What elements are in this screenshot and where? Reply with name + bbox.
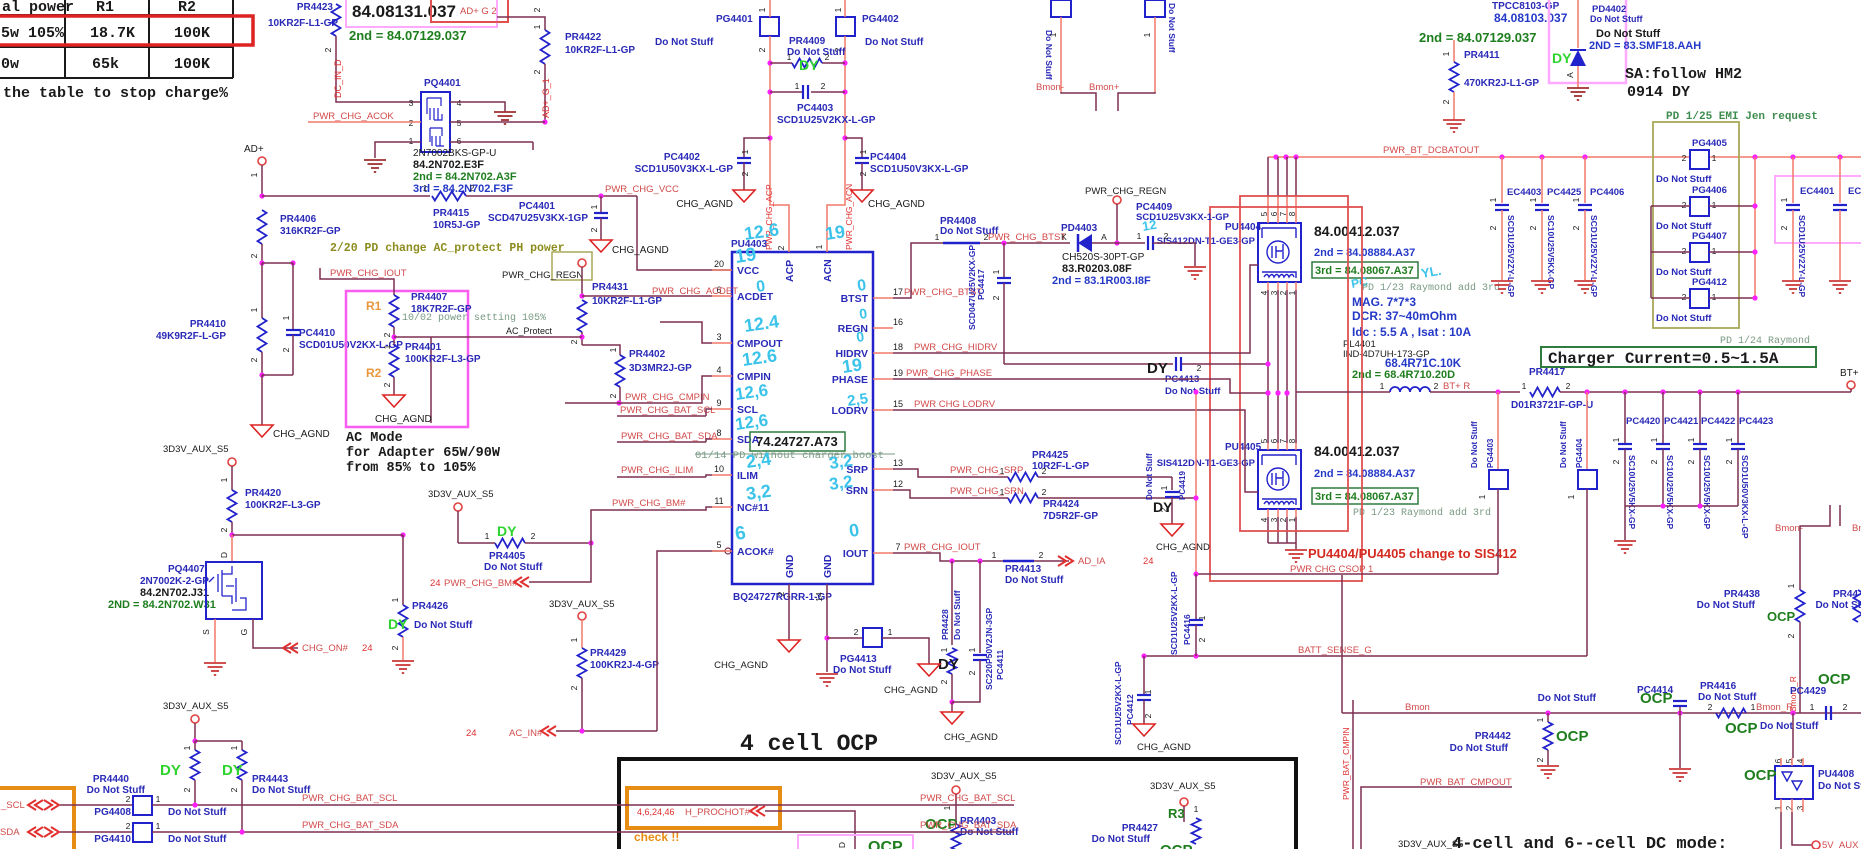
jumper PG4413 [827, 637, 863, 639]
svg-text:15: 15 [893, 399, 903, 409]
svg-text:470KR2J-L1-GP: 470KR2J-L1-GP [1464, 78, 1539, 89]
wire PWR_BT_DCBATOUT [1268, 156, 1861, 158]
capacitor PC4403 [767, 89, 772, 94]
svg-text:2: 2 [532, 7, 542, 12]
svg-text:1: 1 [1441, 51, 1451, 56]
svg-text:1: 1 [1779, 197, 1789, 202]
svg-text:84.2N702.E3F: 84.2N702.E3F [413, 159, 484, 171]
svg-text:PC4423: PC4423 [1739, 416, 1773, 427]
svg-text:2: 2 [1611, 459, 1621, 464]
svg-text:49K9R2F-L-GP: 49K9R2F-L-GP [156, 331, 226, 342]
svg-text:12: 12 [893, 479, 903, 489]
svg-text:AC_IN#: AC_IN# [509, 728, 543, 739]
svg-text:2: 2 [776, 591, 786, 596]
svg-text:Do Not Stuff: Do Not Stuff [1538, 693, 1597, 704]
svg-text:_SCL: _SCL [0, 800, 25, 811]
wire bundle PU4404 to PU4405 [1267, 290, 1269, 443]
svg-text:5V_AUX_: 5V_AUX_ [1822, 840, 1861, 849]
svg-text:ACDET: ACDET [737, 291, 774, 303]
jumper box Do Not Stuff Bmon+ [1145, 0, 1165, 17]
svg-text:1: 1 [991, 269, 1001, 274]
svg-text:2: 2 [1682, 200, 1687, 210]
svg-text:5: 5 [457, 118, 462, 128]
svg-text:2: 2 [1197, 637, 1207, 642]
svg-text:2: 2 [1039, 550, 1044, 560]
wire 3d3v row [229, 532, 234, 537]
svg-text:1: 1 [249, 307, 259, 312]
resistor PR4426 pulldown [402, 535, 404, 605]
wire right bus PG columns [1754, 157, 1756, 298]
svg-text:1: 1 [787, 52, 792, 62]
svg-text:316KR2F-GP: 316KR2F-GP [280, 226, 341, 237]
svg-text:Do Not Stuff: Do Not Stuff [414, 620, 473, 631]
svg-text:2N7002BKS-GP-U: 2N7002BKS-GP-U [413, 148, 496, 159]
svg-text:1: 1 [967, 647, 977, 652]
svg-text:11: 11 [714, 496, 723, 506]
ground [1782, 280, 1804, 282]
svg-text:YL.: YL. [1420, 263, 1443, 281]
wire PWR_CHG_VCC [466, 195, 637, 197]
svg-text:2: 2 [1441, 99, 1451, 104]
svg-text:Bmon_R: Bmon_R [1756, 702, 1793, 713]
svg-text:PR4424: PR4424 [1043, 499, 1080, 510]
box 74.24727.A73 [750, 432, 845, 451]
transistor PU4408 [1775, 766, 1813, 799]
svg-text:2: 2 [249, 253, 259, 258]
ground CHG_AGND [851, 190, 873, 202]
svg-text:Do Not Stuff: Do Not Stuff [1697, 600, 1756, 611]
svg-text:PWR_CHG_BAT_SDA: PWR_CHG_BAT_SDA [920, 820, 1017, 831]
svg-text:2: 2 [1566, 381, 1571, 391]
svg-text:0: 0 [858, 305, 868, 322]
svg-text:SCD1U50V3KX-L-GP: SCD1U50V3KX-L-GP [1740, 455, 1750, 539]
svg-text:2: 2 [382, 382, 392, 387]
svg-text:100KR2F-L3-GP: 100KR2F-L3-GP [405, 354, 481, 365]
svg-text:PR4416: PR4416 [1700, 681, 1737, 692]
svg-text:1: 1 [156, 794, 161, 804]
svg-text:Do Not Stuff: Do Not Stuff [252, 785, 311, 796]
pin 15 LODRV [873, 409, 893, 411]
svg-text:G: G [239, 629, 249, 636]
svg-text:1: 1 [1143, 689, 1153, 694]
svg-text:PR4420: PR4420 [245, 488, 282, 499]
ground [494, 111, 516, 113]
svg-text:PU4408: PU4408 [1818, 769, 1855, 780]
capacitor PC4417 bootstrap [1003, 243, 1005, 278]
pin 11 NC#11 [712, 506, 732, 508]
svg-text:2nd = 84.08884.A37: 2nd = 84.08884.A37 [1314, 247, 1415, 259]
svg-text:1: 1 [608, 347, 618, 352]
svg-text:PR4407: PR4407 [411, 292, 448, 303]
svg-text:AD+_G_1: AD+_G_1 [541, 78, 551, 118]
svg-text:2: 2 [182, 787, 192, 792]
svg-text:1: 1 [1810, 702, 1815, 712]
wire PQ4401 pin1 to ground [375, 142, 421, 158]
svg-text:SCD1U25V2KX-L-GP: SCD1U25V2KX-L-GP [777, 115, 876, 126]
svg-text:2: 2 [740, 171, 750, 176]
svg-text:19: 19 [841, 354, 864, 377]
svg-text:12: 12 [1141, 217, 1158, 234]
svg-text:8: 8 [1288, 438, 1297, 443]
svg-text:PQ4407: PQ4407 [168, 564, 205, 575]
svg-text:AD+ G 2: AD+ G 2 [460, 6, 497, 17]
svg-text:PWR_CHG_IOUT: PWR_CHG_IOUT [330, 268, 407, 279]
svg-text:18: 18 [893, 342, 903, 352]
svg-text:NC#11: NC#11 [737, 502, 769, 514]
svg-text:3,2: 3,2 [828, 472, 854, 494]
svg-text:1: 1 [1048, 32, 1058, 37]
svg-text:PG4412: PG4412 [1692, 277, 1727, 288]
svg-text:PWR_CHG_BAT_SCL: PWR_CHG_BAT_SCL [302, 793, 397, 804]
svg-text:R2: R2 [366, 366, 382, 380]
svg-text:1: 1 [485, 531, 490, 541]
wire bundle DCBATOUT to PU4404 [1267, 157, 1269, 197]
ground [1574, 280, 1596, 282]
svg-text:PWR_CHG_SRN: PWR_CHG_SRN [950, 486, 1024, 497]
svg-text:1: 1 [1137, 231, 1142, 241]
svg-text:1: 1 [1566, 494, 1576, 499]
svg-text:10KR2F-L1-GP: 10KR2F-L1-GP [565, 45, 635, 56]
svg-text:2: 2 [939, 679, 949, 684]
svg-text:PC4429: PC4429 [1790, 686, 1827, 697]
svg-text:19: 19 [893, 368, 903, 378]
svg-text:2: 2 [382, 332, 392, 337]
svg-text:Do Not Stuff: Do Not Stuff [1470, 421, 1479, 468]
svg-text:7: 7 [895, 542, 900, 552]
svg-text:PR4423: PR4423 [297, 2, 334, 13]
svg-text:2: 2 [1686, 459, 1696, 464]
wire join [259, 372, 264, 377]
ground [364, 159, 386, 161]
svg-text:PR4415: PR4415 [433, 208, 470, 219]
svg-text:PG4410: PG4410 [94, 834, 131, 845]
svg-text:1: 1 [1380, 381, 1385, 391]
svg-text:CHG_ON#: CHG_ON# [302, 643, 349, 654]
orange box bottom left [0, 788, 74, 849]
wire BT+_R row [1296, 391, 1390, 393]
svg-text:PG4407: PG4407 [1692, 231, 1727, 242]
svg-text:DY: DY [222, 762, 243, 779]
svg-text:for Adapter 65W/90W: for Adapter 65W/90W [346, 446, 501, 461]
ground CHG_AGND [941, 712, 963, 724]
ground [816, 673, 838, 675]
svg-text:SCD47U25V3KX-1GP: SCD47U25V3KX-1GP [488, 213, 588, 224]
svg-text:PWR_CHG_PHASE: PWR_CHG_PHASE [906, 368, 992, 379]
svg-text:10/02 power setting 105%: 10/02 power setting 105% [402, 312, 546, 324]
svg-text:H_PROCHOT#: H_PROCHOT# [685, 807, 751, 818]
svg-text:from 85% to 105%: from 85% to 105% [346, 461, 477, 476]
svg-text:6: 6 [457, 136, 462, 146]
svg-text:Do Not Stu: Do Not Stu [1818, 781, 1861, 792]
net PWR_CHG_SRN [893, 490, 1008, 498]
ground [1567, 87, 1589, 89]
svg-text:2: 2 [757, 47, 767, 52]
svg-text:Do Not Stuff: Do Not Stuff [1092, 834, 1151, 845]
svg-text:SC10U25V5KX-GP: SC10U25V5KX-GP [1546, 215, 1556, 290]
svg-text:DY: DY [1552, 50, 1572, 66]
svg-text:4,6,24,46: 4,6,24,46 [637, 807, 675, 817]
wire ACN column [827, 36, 845, 252]
black box 4 cell OCP region [619, 759, 1296, 849]
svg-text:PD 1/24 Raymond: PD 1/24 Raymond [1720, 335, 1810, 347]
svg-text:PC4420: PC4420 [1626, 416, 1660, 427]
svg-text:2: 2 [608, 393, 618, 398]
node 5V_AUX [1812, 841, 1820, 849]
svg-text:PG4401: PG4401 [716, 14, 753, 25]
svg-text:SCD1U25V2KX-L-GP: SCD1U25V2KX-L-GP [1113, 661, 1123, 745]
svg-text:5: 5 [1260, 211, 1269, 216]
svg-text:2: 2 [1159, 507, 1169, 512]
pin 20 VCC [712, 269, 732, 271]
svg-text:PR4402: PR4402 [629, 349, 666, 360]
ground [1614, 540, 1636, 542]
svg-text:PG4406: PG4406 [1692, 185, 1727, 196]
svg-text:1: 1 [888, 627, 893, 637]
pin 7 IOUT [873, 552, 893, 554]
svg-text:8: 8 [1288, 211, 1297, 216]
pink box PD4402 [1549, 0, 1626, 83]
svg-text:PU4404/PU4405 change to SIS412: PU4404/PU4405 change to SIS412 [1308, 546, 1517, 561]
svg-text:R1: R1 [366, 299, 382, 313]
svg-text:1: 1 [409, 136, 414, 146]
wire PQ4407 S to ground [214, 619, 216, 662]
svg-text:PG4404: PG4404 [1575, 438, 1584, 468]
svg-text:DY: DY [799, 57, 819, 73]
svg-text:Do Not Stuff: Do Not Stuff [865, 37, 924, 48]
svg-text:2: 2 [126, 821, 131, 831]
svg-text:12.4: 12.4 [743, 311, 780, 336]
svg-text:SCD1U25V2KX-L-GP: SCD1U25V2KX-L-GP [1169, 571, 1179, 655]
svg-text:5w 105%: 5w 105% [1, 25, 65, 42]
svg-text:12,6: 12,6 [734, 411, 769, 434]
wire REGN to ACDET [581, 267, 583, 296]
svg-text:EC4403: EC4403 [1507, 187, 1541, 198]
svg-text:1: 1 [281, 315, 291, 320]
svg-text:6: 6 [734, 523, 747, 545]
wire PQ4401 pin5 to AD+_G_1 [450, 121, 545, 123]
ground [204, 662, 226, 664]
svg-text:OCP: OCP [1556, 728, 1589, 745]
svg-text:PR4401: PR4401 [405, 342, 442, 353]
svg-text:PWR_CHG_IOUT: PWR_CHG_IOUT [904, 542, 981, 553]
svg-text:SA:follow HM2: SA:follow HM2 [1625, 66, 1742, 83]
svg-text:the table to stop charge%: the table to stop charge% [3, 85, 229, 102]
svg-text:PC4411: PC4411 [995, 649, 1005, 680]
svg-text:1: 1 [569, 637, 579, 642]
svg-text:1: 1 [1522, 381, 1527, 391]
svg-text:K: K [1061, 232, 1067, 242]
svg-text:1: 1 [1751, 702, 1756, 712]
wire GND pin14 down [826, 584, 828, 672]
svg-text:2: 2 [323, 47, 333, 52]
svg-text:2nd = 84.07129.037: 2nd = 84.07129.037 [1419, 30, 1536, 45]
svg-text:PWR_CHG_BAT_SCL: PWR_CHG_BAT_SCL [920, 793, 1015, 804]
svg-text:2: 2 [531, 531, 536, 541]
pin 17 BTST [873, 297, 893, 299]
svg-text:D01R3721F-GP-U: D01R3721F-GP-U [1511, 400, 1593, 411]
svg-text:Do Not Stuff: Do Not Stuff [833, 665, 892, 676]
svg-text:Do Not Stuff: Do Not Stuff [484, 562, 543, 573]
wire PWR_CHG_BAT_SDA [152, 831, 1014, 833]
net H_PROCHOT# wire [750, 806, 765, 816]
svg-text:A: A [1101, 232, 1107, 242]
svg-text:PR4427: PR4427 [1122, 823, 1159, 834]
wire GND pin2 to ground [788, 584, 790, 640]
wire PR4406 down [261, 244, 263, 263]
wire PWR_CHG_BAT_SCL [152, 804, 1014, 806]
svg-text:PR4411: PR4411 [1464, 50, 1500, 61]
capacitor PC4411 [979, 561, 981, 653]
svg-text:18.7K: 18.7K [90, 25, 135, 42]
ground CHG_AGND [383, 395, 405, 407]
svg-text:DY: DY [160, 762, 181, 779]
svg-text:PU4405: PU4405 [1225, 442, 1262, 453]
svg-text:1: 1 [992, 550, 997, 560]
svg-text:PWR_CHG_BTST: PWR_CHG_BTST [988, 232, 1066, 243]
svg-text:19: 19 [734, 244, 758, 268]
svg-text:24: 24 [1143, 556, 1154, 567]
svg-text:PG4413: PG4413 [840, 654, 877, 665]
svg-text:R3: R3 [1168, 806, 1185, 821]
svg-text:2nd = 84.2N702.A3F: 2nd = 84.2N702.A3F [413, 171, 517, 183]
svg-text:Do Not Stuff: Do Not Stuff [1165, 386, 1221, 397]
svg-text:1: 1 [1724, 437, 1734, 442]
pin 16 REGN [873, 327, 893, 329]
wire PU4408 connections [1792, 713, 1794, 758]
svg-text:4: 4 [457, 98, 462, 108]
svg-text:PR4443: PR4443 [252, 774, 289, 785]
red box fragment AD+_G_2 [431, 0, 508, 22]
svg-text:AC Mode: AC Mode [346, 431, 403, 446]
svg-text:1: 1 [156, 821, 161, 831]
net AD_IA arrow [1058, 556, 1073, 566]
svg-text:2: 2 [821, 81, 826, 91]
svg-text:OCP: OCP [1160, 842, 1193, 849]
svg-text:4-cell and 6--cell DC mode:: 4-cell and 6--cell DC mode: [1452, 835, 1727, 849]
pin 10 ILIM [712, 474, 732, 476]
svg-text:Bm: Bm [1852, 523, 1861, 534]
svg-text:1: 1 [942, 805, 952, 810]
svg-text:2: 2 [249, 357, 259, 362]
svg-text:DCR: 37~40mOhm: DCR: 37~40mOhm [1352, 309, 1457, 323]
svg-text:SDA: SDA [0, 827, 20, 838]
svg-text:10R5J-GP: 10R5J-GP [433, 220, 481, 231]
wire AD+_G_1 down to ACOK net [544, 64, 546, 122]
svg-text:Do Not Stuff: Do Not Stuff [655, 37, 714, 48]
svg-text:D: D [219, 552, 229, 558]
svg-text:GND: GND [822, 554, 834, 578]
svg-text:2: 2 [409, 118, 414, 128]
svg-text:3rd = 84.08067.A37: 3rd = 84.08067.A37 [1315, 491, 1414, 503]
wire PQ4407 G to CHG_ON# [253, 619, 298, 648]
svg-text:PC4401: PC4401 [519, 201, 556, 212]
pin 19 PHASE [873, 378, 893, 380]
svg-text:GND: GND [784, 554, 796, 578]
svg-text:1: 1 [1712, 153, 1717, 163]
svg-text:1: 1 [182, 745, 192, 750]
svg-text:PWR_BAT_CMPIN: PWR_BAT_CMPIN [1341, 727, 1351, 800]
capacitor PC4412 [1143, 656, 1145, 695]
red highlight box on 65w row [0, 16, 253, 45]
svg-text:1: 1 [1712, 200, 1717, 210]
red box around PU4404/PU4405 [1240, 196, 1348, 531]
svg-text:4: 4 [716, 365, 721, 375]
svg-text:2ND = 83.SMF18.AAH: 2ND = 83.SMF18.AAH [1589, 40, 1701, 52]
svg-text:2nd = 84.07129.037: 2nd = 84.07129.037 [349, 28, 466, 43]
svg-text:PR4428: PR4428 [940, 609, 950, 640]
svg-text:SCD047U25V2KX-GP: SCD047U25V2KX-GP [967, 245, 977, 330]
svg-text:CHG_AGND: CHG_AGND [612, 245, 669, 256]
svg-text:1: 1 [382, 344, 392, 349]
svg-text:1: 1 [1142, 32, 1152, 37]
svg-text:PR4431: PR4431 [592, 282, 629, 293]
svg-text:1: 1 [1649, 437, 1659, 442]
svg-text:PC4422: PC4422 [1701, 416, 1735, 427]
svg-text:1: 1 [229, 745, 239, 750]
svg-text:PWR_CHG_BAT_SDA: PWR_CHG_BAT_SDA [302, 820, 399, 831]
svg-text:20: 20 [714, 259, 724, 269]
jumper box Do Not Stuff Bmon- [1051, 0, 1071, 17]
svg-text:PR4406: PR4406 [280, 214, 317, 225]
svg-text:PR4429: PR4429 [590, 648, 627, 659]
ground CHG_AGND [918, 664, 940, 676]
svg-text:2: 2 [854, 627, 859, 637]
svg-text:CHG_AGND: CHG_AGND [868, 199, 925, 210]
svg-text:PR4442: PR4442 [1475, 731, 1512, 742]
wire to PR4402 [582, 345, 620, 355]
svg-text:1: 1 [1535, 717, 1545, 722]
svg-text:2: 2 [569, 339, 579, 344]
svg-text:12.6: 12.6 [741, 345, 778, 370]
svg-text:7D5R2F-GP: 7D5R2F-GP [1043, 511, 1098, 522]
wire to ground [951, 702, 953, 712]
wire BT+ row right [1560, 391, 1851, 393]
svg-text:24: 24 [362, 643, 373, 654]
svg-text:3D3V_AUX_S5: 3D3V_AUX_S5 [163, 701, 228, 712]
svg-text:10KR2F-L1-GP: 10KR2F-L1-GP [592, 296, 662, 307]
svg-text:PR4438: PR4438 [1724, 589, 1761, 600]
svg-text:Idc : 5.5 A , Isat : 10A: Idc : 5.5 A , Isat : 10A [1352, 325, 1471, 339]
svg-text:PC4416: PC4416 [1182, 614, 1192, 645]
svg-text:2: 2 [589, 227, 599, 232]
svg-text:CHG_AGND: CHG_AGND [1156, 542, 1210, 553]
svg-text:PR4405: PR4405 [489, 551, 526, 562]
svg-text:1: 1 [390, 597, 400, 602]
wire AD+_G_2 to PR4422 [497, 17, 545, 30]
svg-text:CHG_AGND: CHG_AGND [1137, 742, 1191, 753]
svg-text:PR4409: PR4409 [789, 36, 826, 47]
svg-text:3D3V_AUX_S5: 3D3V_AUX_S5 [163, 444, 228, 455]
svg-text:1: 1 [939, 647, 949, 652]
svg-text:1: 1 [1000, 487, 1005, 497]
ground [1443, 119, 1465, 121]
wire down [231, 466, 233, 490]
svg-text:S: S [201, 629, 211, 635]
capacitor PC4410 [292, 263, 294, 330]
svg-text:19: 19 [824, 221, 847, 244]
svg-text:17: 17 [893, 287, 903, 297]
svg-text:1: 1 [1712, 246, 1717, 256]
ground [1184, 266, 1206, 268]
svg-text:2: 2 [1724, 459, 1734, 464]
svg-text:12.6: 12.6 [743, 219, 780, 244]
svg-text:SCD1U50V3KX-L-GP: SCD1U50V3KX-L-GP [870, 164, 969, 175]
svg-text:AD_IA: AD_IA [1078, 556, 1106, 567]
resistor PR4428 DY [951, 561, 953, 645]
svg-text:2ND = 84.2N702.W31: 2ND = 84.2N702.W31 [108, 599, 216, 611]
svg-text:2: 2 [1649, 459, 1659, 464]
svg-text:2: 2 [1571, 225, 1581, 230]
